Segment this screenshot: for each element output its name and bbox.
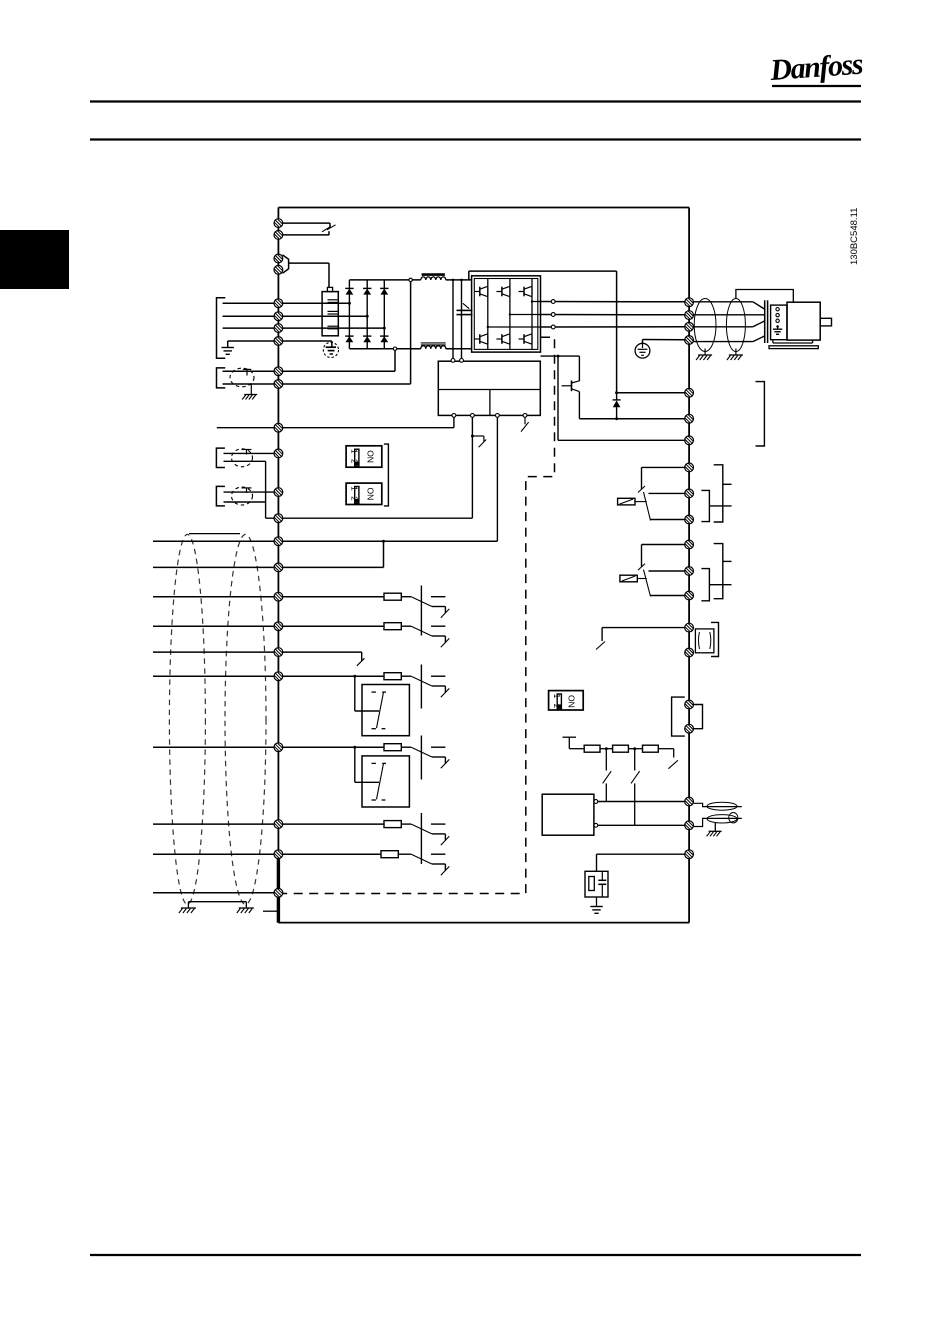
wire analog common [471, 417, 473, 518]
screen ground stub right [245, 902, 247, 908]
wire DC+ to brake [468, 271, 470, 280]
wire analog output 42 [602, 627, 685, 629]
junction DC+ load share [409, 278, 412, 281]
load-sharing cable screen (dash-dot) [230, 368, 254, 387]
ext switch box 2 [362, 756, 409, 807]
terminal 42 AO [685, 623, 694, 632]
twisted pair loop a [707, 802, 737, 810]
switch terminal 20 [381, 851, 398, 858]
terminal 98 W [685, 322, 694, 331]
IGBT upper phase 1 [474, 291, 480, 293]
brake terminals bracket [756, 382, 765, 446]
node W [551, 325, 555, 329]
potentiometer knob ref.2 (dash-dot) [232, 487, 253, 505]
brake diode [616, 393, 618, 400]
switch terminal 19 [384, 623, 401, 630]
analog output meter [695, 629, 714, 653]
relay1 terminal 03 [685, 515, 694, 524]
motor terminal w [776, 319, 779, 322]
relay 1 bracket inner [701, 490, 709, 521]
terminal 81 [274, 219, 283, 228]
rectifier diode D5 lower [363, 335, 371, 337]
chassis ground twisted pair [709, 830, 722, 832]
svg-text:2: 2 [350, 459, 359, 464]
wire inverter to brake IGBT [541, 355, 580, 357]
wire R2-R3 [628, 748, 642, 750]
terminal 68 RS485 P [685, 700, 694, 709]
motor terminal v [776, 313, 779, 316]
terminal 50 +10V [274, 423, 283, 432]
wire DI 32 [153, 746, 384, 748]
pot 1 wiper tee [242, 449, 252, 451]
wire brake R- 81 [283, 222, 330, 224]
wire W 98 [541, 326, 685, 328]
terminal 39 common [685, 648, 694, 657]
relay1 terminal 01 [685, 463, 694, 472]
module pin P [594, 800, 598, 804]
screen drain to chassis [250, 384, 252, 394]
DI bus bar 32 [420, 736, 422, 780]
potentiometer knob ref.1 (dash-dot) [232, 449, 253, 467]
wire UDC sense [557, 356, 559, 440]
header rule 2 [90, 138, 861, 140]
terminal 82 [274, 231, 283, 240]
motor wire U [694, 301, 753, 303]
terminal 69 RS485 N [685, 724, 694, 733]
earth symbol mains PE [222, 347, 234, 349]
RS-485 jumper loop [694, 705, 703, 729]
screen end bar [189, 533, 240, 535]
wire 13 +24V [153, 566, 384, 568]
wire L2 92 [223, 315, 368, 317]
wire +24V to terminal 12 [496, 417, 498, 541]
twisted pair wire b [694, 818, 742, 826]
terminal 18 DI [274, 592, 283, 601]
motor feet [772, 340, 774, 343]
switch terminal 33 [384, 821, 401, 828]
wire brake R+ 82 [283, 234, 329, 236]
rectifier leg 3 [383, 280, 385, 349]
inverter phase leg 1 wires [487, 279, 489, 287]
termination resistor R1 [584, 745, 600, 752]
RC resistor [589, 877, 595, 891]
terminal 92 L2 [274, 312, 283, 321]
terminal 88 DC- [274, 367, 283, 376]
ext switch box 2 drop [354, 747, 356, 782]
DC link capacitor [457, 309, 473, 311]
svg-text:1: 1 [350, 486, 359, 491]
relay 2 bracket inner [701, 569, 709, 601]
rectifier diode D1 upper [345, 287, 353, 289]
wire brake R- 82 [579, 418, 684, 420]
wire terminal 61 [597, 853, 685, 855]
tap switch on analog common [471, 435, 474, 438]
junction L3-rectifier [383, 327, 386, 330]
wire 68 P [598, 801, 685, 803]
analog output hook [596, 642, 605, 650]
motor shaft [820, 318, 831, 326]
IGBT lower phase 3 [519, 338, 525, 340]
ext switch box 1 contacts [372, 691, 376, 693]
enclosure bottom wire [278, 922, 689, 924]
SMPS divider vertical [489, 390, 491, 416]
wire R1-R2 [600, 748, 613, 750]
wire 54 top [224, 491, 277, 493]
terminal 99 PE [685, 336, 694, 345]
terminal 89 DC+ [274, 380, 283, 389]
svg-text:Danfoss: Danfoss [768, 48, 864, 87]
rectifier leg 1 [348, 280, 350, 349]
termination switch leg 2 [634, 749, 636, 771]
screen bond jumper [736, 290, 793, 303]
svg-text:ON: ON [365, 450, 375, 463]
wire brake R+ 81 [617, 392, 685, 394]
motor terminal box [771, 305, 787, 340]
terminal 97 V [685, 311, 694, 320]
terminal 82 R+ [685, 414, 694, 423]
wire V 97 [541, 314, 685, 316]
junction L1-rectifier [348, 302, 351, 305]
relay 2 bracket outer [714, 544, 723, 599]
DC link rail B [461, 280, 463, 358]
earth symbol motor [773, 328, 782, 330]
PE circle symbol [635, 343, 650, 358]
terminal 55 common [274, 514, 283, 523]
switch terminal 18 [384, 593, 401, 600]
wire DI 19 [153, 625, 384, 627]
wire terminal 55 common [266, 517, 473, 519]
wire DI 29 [153, 675, 384, 677]
terminal 81 R- [685, 388, 694, 397]
wire 69 N [598, 824, 685, 826]
wire DI 33 [153, 823, 384, 825]
RC capacitor [601, 871, 603, 880]
terminal 37 safe stop [274, 888, 283, 897]
wire pot1 low [224, 460, 266, 462]
IGBT lower phase 1 [474, 338, 480, 340]
PELV dashed border [283, 337, 555, 893]
motor wire V [694, 314, 765, 316]
terminal 54 AI [274, 488, 283, 497]
RC network box [585, 871, 608, 897]
junction brake R- [615, 417, 618, 420]
wire DI 18 [153, 596, 384, 598]
relay2 terminal 06 [685, 591, 694, 600]
wire 88 (DC-) [223, 370, 395, 372]
terminal 88 [274, 254, 283, 263]
relay1 terminal 02 [685, 489, 694, 498]
relay2 terminal 05 [685, 567, 694, 576]
terminal 12 +24V [274, 537, 283, 546]
motor wire PE [694, 341, 753, 343]
RFI capacitor mark 2 [328, 310, 338, 312]
left bus thick section [277, 854, 280, 922]
motor body [787, 302, 820, 340]
DI bus bar 18/19 [420, 586, 422, 636]
terminal 33 DI [274, 820, 283, 829]
DIP switch S801 [549, 691, 584, 710]
footer rule [90, 1254, 861, 1256]
control cable screen ellipse left [169, 534, 205, 904]
relay 1 bracket outer [714, 465, 723, 522]
motor cable chassis ground 2 [735, 349, 737, 355]
DC choke lower [421, 342, 446, 344]
SMPS pin4 switch [524, 417, 526, 424]
rectifier leg 2 [366, 280, 368, 349]
RFI filter terminal stub [327, 287, 332, 291]
terminal 96 U [685, 298, 694, 307]
chassis ground screen right [239, 907, 254, 909]
relay 1 contacts 01/02/03 [642, 466, 685, 468]
junction DC- load share [393, 347, 396, 350]
motor terminal pe [776, 325, 779, 328]
rectifier diode D4 lower [345, 335, 353, 337]
analog output bracket [711, 622, 719, 656]
junction L2-rectifier [366, 315, 369, 318]
DC choke upper [422, 273, 445, 276]
enclosure top wire [278, 207, 689, 209]
wire 89 (DC+) [223, 383, 411, 385]
wire 53 top [224, 452, 277, 454]
wire motor PE 99 [643, 339, 685, 341]
termination resistor R3 [643, 745, 659, 752]
motor wire W [694, 326, 753, 328]
DC+ rail [349, 279, 420, 281]
svg-text:ON: ON [365, 488, 375, 501]
termination end switch [658, 748, 673, 750]
screen ground link [188, 901, 246, 903]
rectifier diode D3 upper [380, 287, 388, 289]
terminal 89 [274, 265, 283, 274]
switch terminal 32 [384, 744, 401, 751]
RFI capacitor mark 3 [328, 325, 338, 327]
DC link connector wedge [283, 255, 289, 273]
terminal 61 [685, 850, 694, 859]
SMPS divider horizontal [438, 389, 540, 391]
termination wire [569, 748, 584, 750]
DC- rail [349, 348, 420, 350]
SMPS pin 3 [496, 414, 500, 418]
wire 12 +24V [153, 540, 497, 542]
termination switch leg 1 [605, 749, 607, 771]
terminal 69 [685, 821, 694, 830]
wire U 96 [541, 301, 685, 303]
ext switch box 1 drop [354, 676, 356, 711]
terminal 27 DI [274, 648, 283, 657]
motor cable chassis ground 1 [704, 349, 706, 355]
DIP switch S201 [346, 446, 382, 467]
inverter outer box [472, 276, 541, 352]
svg-text:130BC548.11: 130BC548.11 [849, 208, 860, 265]
cable clamp bars [764, 300, 766, 343]
RFI PE circle [323, 342, 338, 357]
inverter phase leg 2 wires [509, 279, 511, 287]
IGBT upper phase 2 [496, 291, 502, 293]
motor cable screen ellipse 2 [726, 299, 745, 352]
twisted pair wire a [694, 803, 742, 806]
switch hook terminal 27 [357, 658, 365, 666]
SMPS pin 1 [452, 414, 456, 418]
wire pot2 low [224, 501, 266, 503]
IGBT lower phase 2 [496, 338, 502, 340]
junction brake R+ [615, 391, 618, 394]
header rule 1 [90, 100, 861, 102]
RS-485 terminal box [672, 697, 685, 736]
switch terminal 29 [384, 673, 401, 680]
earth symbol RC [590, 906, 602, 908]
node U [551, 300, 555, 304]
terminal 32 DI [274, 743, 283, 752]
motor base plate [769, 346, 818, 349]
terminal 20 common [274, 850, 283, 859]
DI bus bar 29 [420, 665, 422, 709]
fieldbus module box [542, 794, 594, 835]
DIP bracket [384, 444, 389, 506]
pot box 1 bracket [216, 448, 225, 467]
mains bracket [217, 298, 226, 359]
node V [551, 313, 555, 317]
inverter phase leg 3 wires [531, 279, 533, 287]
terminal 19 DI [274, 622, 283, 631]
termination pull-up tee [563, 736, 577, 738]
ext switch box 2 contacts [372, 762, 376, 764]
left margin black tab [0, 230, 69, 289]
terminal 13 +24V [274, 563, 283, 572]
rectifier diode D2 upper [363, 287, 371, 289]
IGBT upper phase 3 [519, 291, 525, 293]
svg-text:ON: ON [567, 695, 577, 708]
RC ground stub [596, 897, 598, 906]
brake cable break squiggle [322, 225, 336, 232]
brake IGBT [578, 356, 580, 381]
wire +10V to terminal 50 [453, 417, 455, 427]
module pin N [594, 823, 598, 827]
SMPS input pin a [451, 359, 455, 363]
relay2 terminal 04 [685, 540, 694, 549]
rectifier diode D6 lower [380, 335, 388, 337]
wire PE 95 [228, 340, 332, 342]
terminal 93 L3 [274, 324, 283, 333]
terminal 91 L1 [274, 299, 283, 308]
SMPS pin 4 [523, 414, 527, 418]
chassis ground screen left [181, 907, 196, 909]
wire 37 screen (dashed handled) [153, 892, 283, 894]
terminal 29 DI [274, 672, 283, 681]
terminal 95 PE [274, 337, 283, 346]
RFI capacitor mark 1 [328, 299, 338, 301]
svg-text:1: 1 [350, 449, 359, 454]
DC link rail A [452, 280, 454, 358]
screen tee [243, 368, 252, 370]
control cable screen ellipse right [225, 534, 266, 904]
SMPS input pin b [460, 359, 464, 363]
right terminal bus [688, 208, 690, 923]
twisted pair crossing loop [729, 813, 738, 823]
wire DI 20 [153, 853, 381, 855]
chassis ground load sharing [244, 394, 257, 396]
svg-text:2: 2 [552, 704, 561, 709]
RFI filter block [322, 292, 338, 336]
screen ground stub left [187, 902, 189, 908]
pot box 2 bracket [216, 486, 225, 506]
wire L1 91 [223, 302, 350, 304]
load sharing bracket [217, 368, 226, 388]
terminal 68 [685, 797, 694, 806]
left terminal bus [277, 208, 279, 923]
svg-text:2: 2 [350, 496, 359, 501]
motor terminal u [776, 308, 779, 311]
svg-text:1: 1 [552, 694, 561, 699]
wire DI 27 [153, 651, 362, 653]
relay 2 contacts 04/05/06 [642, 544, 685, 546]
twisted pair loop b [707, 815, 737, 823]
DIP switch S202 [346, 483, 382, 504]
pot 2 wiper tee [242, 487, 252, 489]
motor cable screen ellipse 1 [694, 299, 716, 352]
twisted pair screen stub [714, 823, 716, 832]
SMPS pin 2 [471, 414, 475, 418]
terminal 89 UDC [685, 436, 694, 445]
screen stub near bus [263, 910, 278, 912]
inverter inner box [474, 279, 538, 350]
wire L3 93 [223, 327, 385, 329]
wire DC connector to filter [289, 262, 329, 264]
ext switch box 1 [362, 685, 409, 736]
SMPS box [438, 361, 540, 415]
termination resistor R2 [613, 745, 629, 752]
terminal 53 AI [274, 449, 283, 458]
DI bus bar 33/20 [420, 813, 422, 864]
